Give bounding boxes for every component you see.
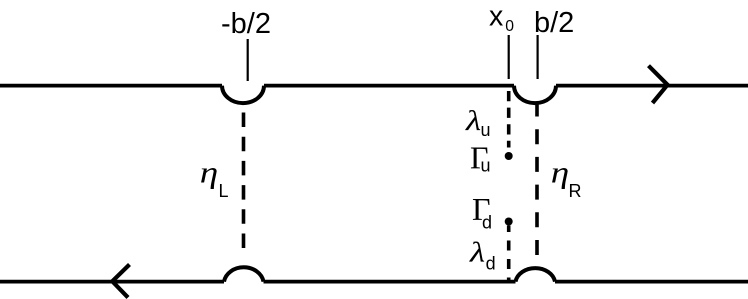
notch arc at -b/2 on top line [222, 86, 264, 104]
svg-text:-b/2: -b/2 [221, 8, 271, 40]
svg-text:b/2: b/2 [534, 7, 574, 39]
notch arc bottom-right [516, 268, 556, 281]
dashed contour eta_R vertical [535, 102, 539, 256]
svg-text:η: η [551, 155, 569, 189]
dashed branch-cut line lower (lambda_d) [507, 226, 511, 282]
notch arc at x0/b2 on top line [514, 86, 556, 104]
wire top line right segment [556, 84, 748, 88]
svg-text:u: u [481, 156, 491, 176]
svg-text:η: η [200, 155, 218, 189]
svg-text:λ: λ [469, 235, 485, 268]
branch point dot Gamma_d [505, 218, 513, 226]
dashed branch-cut line upper (lambda_u) [507, 91, 511, 148]
dashed contour eta_L vertical [242, 113, 246, 249]
pointer line from x0 [508, 35, 510, 79]
arrow right on top line [649, 66, 668, 103]
branch point dot Gamma_u [505, 152, 513, 160]
svg-text:d: d [482, 213, 492, 233]
wire bottom line middle segment [264, 280, 516, 284]
pointer line from -b/2 to notch [247, 39, 249, 81]
pointer line from b/2 [536, 35, 538, 79]
svg-text:d: d [486, 254, 496, 274]
svg-text:R: R [569, 181, 582, 201]
wire bottom line left segment [0, 280, 224, 284]
svg-text:λ: λ [465, 104, 481, 137]
arrow left on bottom line [112, 265, 129, 298]
notch arc bottom-left [224, 267, 264, 281]
wire bottom line right segment [555, 280, 748, 284]
wire top line middle segment [264, 84, 514, 88]
wire top line left segment [0, 84, 222, 88]
svg-text:L: L [219, 181, 229, 201]
svg-text:u: u [481, 120, 491, 140]
